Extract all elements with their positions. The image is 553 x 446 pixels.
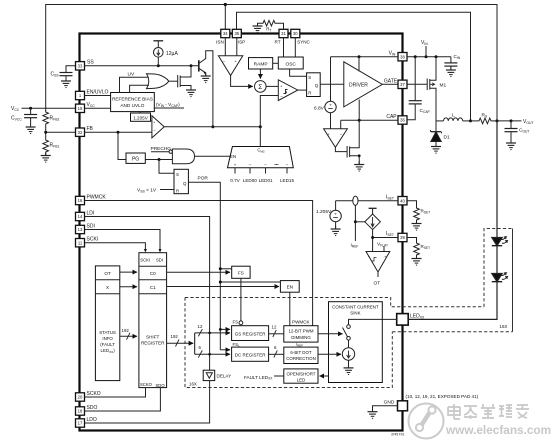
pin GND — [384, 400, 408, 411]
svg-text:VIN: VIN — [421, 40, 428, 46]
bus shift out 192 — [167, 342, 194, 344]
svg-text:EN: EN — [230, 154, 236, 159]
wire CAP rail — [341, 119, 398, 121]
amplifier DRIVER — [344, 62, 383, 107]
wire EN down to dimming — [289, 292, 291, 326]
svg-text:UV: UV — [128, 72, 135, 78]
wire driver output to GATE — [382, 83, 398, 85]
svg-text:SS: SS — [87, 60, 94, 66]
svg-text:PWMCK: PWMCK — [87, 195, 107, 201]
svg-text:VIN: VIN — [389, 51, 396, 57]
svg-text:35: 35 — [234, 31, 239, 36]
pin 31 RT — [274, 29, 288, 44]
svg-text:33: 33 — [78, 64, 83, 69]
svg-text:DELAY: DELAY — [217, 374, 232, 379]
svg-text:R: R — [308, 90, 311, 95]
node ISN junction — [224, 3, 227, 6]
svg-text:SCKO: SCKO — [140, 382, 153, 387]
svg-text:RT: RT — [274, 40, 280, 45]
svg-text:CSS: CSS — [51, 72, 60, 78]
svg-text:AND UVLO: AND UVLO — [120, 103, 144, 108]
svg-text:PWMCK: PWMCK — [292, 319, 311, 324]
reference bias and uvlo block — [111, 93, 155, 112]
wire POR to FS — [220, 268, 231, 270]
svg-text:LEDXX: LEDXX — [410, 313, 425, 319]
node current mirror oval — [353, 196, 358, 205]
svg-text:Σ: Σ — [258, 84, 262, 91]
wire VSS<1V to R — [160, 189, 174, 191]
block DC register — [232, 342, 269, 362]
watermark elecfans logo — [409, 404, 552, 439]
pin 36 CAP — [386, 114, 407, 124]
ground RFB1 — [45, 154, 47, 156]
wire RT pin to OSC — [283, 38, 285, 57]
svg-text:CVCC: CVCC — [11, 116, 22, 122]
svg-text:+: + — [153, 121, 156, 125]
wire FB to PG — [118, 132, 126, 159]
svg-text:DC REGISTER: DC REGISTER — [235, 353, 267, 358]
svg-text:LED: LED — [297, 377, 306, 382]
svg-text:37: 37 — [400, 82, 405, 87]
svg-text:16X: 16X — [189, 382, 197, 387]
or-gate UV — [147, 74, 169, 89]
svg-text:−: − — [223, 59, 226, 64]
svg-text:−: − — [249, 162, 252, 167]
svg-text:ISET: ISET — [386, 194, 394, 200]
source current sink — [342, 340, 354, 374]
source dependent current diamond — [355, 208, 380, 229]
svg-text:Q: Q — [315, 83, 319, 88]
svg-text:6: 6 — [274, 345, 277, 350]
wire switch to LED pin — [349, 319, 397, 324]
wire CCS to open/short — [320, 375, 329, 377]
svg-text:www.elecfans.com: www.elecfans.com — [445, 423, 551, 437]
wire ISP sense rail — [237, 12, 471, 121]
svg-text:RS: RS — [482, 113, 488, 119]
block OSC — [278, 57, 303, 69]
block PG power good — [126, 153, 145, 163]
note figure number — [391, 433, 405, 437]
node VCC input label — [11, 106, 20, 112]
block 12-bit PWM dimming — [284, 319, 318, 342]
svg-text:RSET: RSET — [421, 209, 431, 215]
wire fault LED label — [274, 375, 284, 377]
svg-text:SDO: SDO — [156, 383, 166, 388]
capacitor CCAP — [407, 57, 431, 120]
wire LDO pin link — [85, 381, 210, 423]
svg-text:+: + — [235, 58, 238, 63]
svg-text:CCAP: CCAP — [420, 108, 431, 114]
svg-text:6: 6 — [199, 345, 202, 350]
svg-text:X: X — [106, 285, 109, 290]
wire driver Vin rail — [331, 56, 399, 58]
svg-text:SINK: SINK — [350, 310, 360, 315]
wire Vc to PWM comp minus — [260, 96, 278, 127]
pin 1 EN/UVLO — [76, 90, 109, 100]
capacitor CVCC — [11, 108, 37, 133]
pin 39 ISET — [386, 231, 407, 242]
comparator CM2 multiplexed — [228, 147, 294, 168]
svg-text:14: 14 — [78, 214, 83, 219]
pin 40 ISET — [386, 194, 407, 205]
svg-text:S: S — [308, 75, 311, 80]
svg-text:16X: 16X — [500, 324, 508, 329]
wire OR out to mosfet gate — [169, 80, 178, 82]
svg-text:GATE: GATE — [384, 78, 398, 84]
svg-text:RAMP: RAMP — [254, 62, 268, 68]
node Vc junction — [211, 125, 214, 128]
wire VFLAT input — [383, 246, 385, 252]
svg-text:SHIFT: SHIFT — [146, 335, 159, 340]
svg-text:34: 34 — [223, 31, 228, 36]
block open/short LED — [284, 369, 318, 383]
svg-text:RFB2: RFB2 — [50, 116, 60, 122]
wire SDO pin link — [85, 388, 161, 411]
svg-text:DRIVER: DRIVER — [349, 82, 368, 88]
svg-text:LEDXX): LEDXX) — [101, 348, 116, 354]
wire OT to C0 — [120, 271, 137, 273]
capacitor COUT — [505, 121, 530, 150]
boundary 16X channel dashed box — [185, 298, 484, 307]
svg-text:DIMMING: DIMMING — [291, 335, 311, 340]
svg-text:INFO: INFO — [102, 336, 113, 341]
LED D-LED1 — [492, 237, 508, 246]
svg-text:(10, 12, 19, 21, EXPOSED PAD 4: (10, 12, 19, 21, EXPOSED PAD 41) — [406, 394, 479, 399]
svg-text:13: 13 — [78, 227, 83, 232]
svg-text:EN: EN — [287, 285, 293, 290]
op-amp CAMP error amp — [85, 116, 165, 138]
capacitor CIN — [444, 54, 460, 77]
svg-text:LED01: LED01 — [259, 178, 273, 183]
wire IREF branch — [354, 205, 356, 241]
svg-text:CIN: CIN — [454, 54, 461, 60]
svg-text:REFERENCE BIAS: REFERENCE BIAS — [112, 97, 153, 102]
svg-text:−: − — [153, 128, 156, 133]
wire VOUT to LED anode — [496, 121, 498, 238]
svg-text:+: + — [334, 212, 337, 217]
block RAMP — [249, 58, 273, 69]
wire C0 to FS — [167, 271, 230, 273]
wire GND pin — [373, 406, 398, 412]
node FB-PG junction — [117, 131, 120, 134]
pin LEDxx — [397, 313, 425, 325]
svg-text:ISN: ISN — [216, 40, 224, 45]
svg-text:−: − — [368, 254, 371, 259]
svg-text:R: R — [176, 188, 179, 193]
bus demux to GS 12 — [195, 332, 230, 334]
svg-text:40: 40 — [400, 198, 405, 203]
wire PG to S — [159, 160, 174, 174]
pin 17 LDO — [76, 417, 97, 427]
svg-text:OPEN/SHORT: OPEN/SHORT — [287, 371, 316, 376]
svg-text:VCC: VCC — [11, 106, 20, 112]
pin 38 VIN — [389, 51, 407, 61]
wire ISET39 — [373, 230, 398, 252]
svg-text:LED15: LED15 — [280, 178, 294, 183]
transistor M1 external — [407, 57, 446, 121]
wire PG out to AND — [145, 159, 172, 161]
bus status 192 — [120, 335, 137, 337]
wire PWMCK — [85, 201, 313, 326]
wire POR to EN — [220, 281, 280, 283]
svg-text:STATUS: STATUS — [99, 330, 116, 335]
svg-text:−: − — [280, 94, 283, 99]
resistor RSET top — [407, 201, 430, 230]
op-amp OT comparator — [366, 252, 390, 287]
wire sum to PWM comp — [266, 85, 278, 87]
boundary LED string dashed box — [484, 229, 513, 307]
svg-text:SDO: SDO — [87, 405, 98, 411]
wire X to C1 — [120, 286, 137, 288]
wire VCC to block — [85, 107, 111, 109]
block EN — [280, 281, 299, 293]
svg-text:−: − — [264, 162, 267, 167]
pin 11 SCKI — [76, 237, 99, 247]
svg-text:EN/UVLO: EN/UVLO — [87, 90, 109, 96]
svg-text:6-BIT DOT: 6-BIT DOT — [290, 350, 311, 355]
svg-text:192: 192 — [171, 334, 179, 339]
svg-text:COUT: COUT — [519, 128, 529, 134]
svg-text:3745 F01: 3745 F01 — [391, 433, 405, 437]
svg-text:VFLAT: VFLAT — [377, 241, 388, 247]
pin 13 SDI — [76, 224, 95, 234]
svg-text:REGISTER: REGISTER — [141, 341, 165, 346]
pin 33 SS — [76, 60, 95, 71]
svg-text:OT: OT — [374, 281, 381, 287]
svg-text:11: 11 — [78, 240, 83, 245]
svg-text:SCKI: SCKI — [140, 257, 150, 262]
svg-text:12µA: 12µA — [166, 51, 178, 57]
svg-text:15: 15 — [78, 106, 83, 111]
svg-text:SDI: SDI — [156, 257, 163, 262]
wire Q to driver — [320, 83, 344, 85]
comparator PWM with hysteresis — [278, 80, 298, 101]
svg-text:PG: PG — [132, 157, 139, 163]
svg-text:OT: OT — [104, 271, 111, 276]
svg-text:12: 12 — [198, 324, 203, 329]
watermark chinese glyph blocks — [448, 404, 529, 419]
svg-text:FB: FB — [87, 126, 94, 132]
op-amp cap buffer — [324, 120, 348, 147]
svg-text:GS REGISTER: GS REGISTER — [235, 332, 267, 337]
svg-text:RSET: RSET — [421, 244, 431, 250]
current source 12uA — [153, 41, 178, 66]
svg-text:S: S — [176, 172, 179, 177]
wire correction to sink — [318, 353, 341, 355]
resistor RFB1 — [43, 139, 60, 154]
wire FS down to GS register — [240, 278, 242, 321]
svg-text:C0: C0 — [150, 271, 156, 276]
wire Q POR — [188, 182, 220, 349]
svg-text:0.7V: 0.7V — [230, 178, 240, 183]
pin 35 ISP — [232, 29, 245, 44]
svg-text:LDI: LDI — [87, 211, 95, 217]
wire LDI — [85, 217, 210, 371]
node VIN supply stub — [425, 46, 427, 57]
wire SYNC pin to OSC — [294, 38, 296, 57]
svg-text:CAP: CAP — [386, 114, 397, 120]
wire LED1 to LED2 — [496, 245, 498, 274]
wire ISN pin riser — [224, 5, 226, 30]
svg-text:12-BIT PWM: 12-BIT PWM — [288, 329, 313, 334]
svg-text:FAULT LEDXX: FAULT LEDXX — [244, 375, 273, 381]
wire SCKO pin link — [85, 388, 146, 397]
junction demux bracket — [194, 333, 196, 354]
wire latch enable DC — [220, 349, 230, 351]
block DELAY — [203, 370, 231, 380]
svg-text:31: 31 — [281, 31, 286, 36]
svg-text:SYNC: SYNC — [297, 40, 310, 45]
svg-text:12: 12 — [272, 325, 277, 330]
svg-text:PRECHG: PRECHG — [151, 146, 172, 152]
pin 37 GATE — [384, 78, 407, 88]
wire VIN rail external — [407, 56, 451, 58]
wire CM2 output to Vc — [259, 127, 261, 147]
wire CM2 input stubs — [235, 168, 287, 174]
wire EN/UVLO to block — [85, 95, 111, 97]
block GS register — [232, 320, 269, 341]
and-gate precharge — [172, 149, 194, 164]
svg-text:Q: Q — [183, 181, 187, 186]
op-amp current sense amp — [218, 56, 242, 76]
svg-text:RFB1: RFB1 — [50, 143, 60, 149]
svg-text:+: + — [328, 131, 331, 136]
svg-text:FSL: FSL — [233, 342, 241, 348]
wire UV to OR gate — [120, 77, 149, 92]
svg-text:30: 30 — [293, 31, 298, 36]
svg-text:−: − — [286, 162, 289, 167]
wire VOUT — [497, 120, 522, 122]
resistor RT with ground — [253, 20, 284, 32]
svg-text:•••: ••• — [274, 162, 279, 167]
svg-text:D1: D1 — [444, 135, 450, 141]
resistor RFB2 — [43, 111, 60, 126]
svg-text:SDI: SDI — [87, 224, 95, 230]
wire ISN ISP pin risers — [225, 38, 237, 56]
transistor internal MOSFET — [178, 66, 196, 97]
block status info column — [95, 266, 119, 381]
svg-text:6.8V: 6.8V — [314, 105, 325, 111]
svg-text:ISP: ISP — [238, 40, 245, 45]
svg-text:ISET: ISET — [386, 231, 394, 237]
svg-text:L: L — [452, 113, 455, 119]
svg-text:SCKO: SCKO — [87, 391, 101, 397]
pin 14 LDI — [76, 211, 95, 221]
wire PWM comp to R — [298, 89, 307, 91]
transistor NPN Q — [199, 51, 213, 127]
pin 34 ISN — [216, 29, 230, 44]
wire SDI — [85, 230, 161, 252]
block 1.205V reference — [131, 112, 151, 122]
svg-text:−: − — [340, 132, 343, 137]
capacitor CSS — [51, 66, 76, 88]
pin 15 VCC — [76, 102, 96, 113]
wire ISET40 — [336, 200, 398, 202]
wire error amp output Vc — [164, 126, 260, 128]
bus DC to correction 6 — [269, 353, 284, 355]
svg-text:M1: M1 — [440, 82, 447, 88]
svg-text:1.205V: 1.205V — [316, 209, 332, 215]
pin 32 FB — [76, 126, 94, 136]
pin 16 PWMCK — [76, 195, 107, 205]
svg-text:38: 38 — [400, 54, 405, 59]
svg-text:IREF: IREF — [296, 342, 303, 348]
wire sense amp to sum — [231, 76, 253, 87]
wire AND out to CM2 EN — [195, 155, 231, 157]
svg-text:IREF: IREF — [351, 243, 359, 249]
svg-text:C1: C1 — [150, 285, 156, 290]
svg-text:GND: GND — [384, 400, 395, 406]
wire RAMP to sum — [259, 69, 261, 79]
svg-text:VOUT: VOUT — [523, 119, 534, 125]
LED D-LED2 — [492, 273, 508, 282]
note exposed pad — [406, 394, 479, 399]
resistor RSET bottom — [407, 238, 430, 266]
svg-text:SCKI: SCKI — [87, 237, 99, 243]
svg-text:20: 20 — [78, 395, 83, 400]
wire PRECHG input — [151, 151, 169, 153]
svg-text:32: 32 — [78, 130, 83, 135]
pin 20 SCKO — [76, 391, 101, 401]
wire OSC to RAMP — [273, 62, 279, 64]
wire (VIN-VCAP) output — [154, 107, 184, 109]
svg-text:(FAULT: (FAULT — [100, 342, 115, 347]
wire ISN sense top rail — [46, 5, 497, 122]
block constant current sink — [329, 302, 383, 383]
svg-text:CONSTANT CURRENT: CONSTANT CURRENT — [332, 304, 379, 309]
svg-text:POR: POR — [198, 176, 209, 182]
bus demux to DC 6 — [195, 353, 230, 355]
resistor RS — [471, 113, 498, 124]
svg-text:FS: FS — [238, 270, 244, 275]
latch SR PWM — [307, 73, 321, 97]
svg-text:RT: RT — [266, 27, 271, 33]
block FS — [232, 266, 250, 278]
block 6-bit dot correction — [284, 342, 318, 364]
wire OSC to S — [290, 69, 307, 76]
svg-text:39: 39 — [400, 235, 405, 240]
svg-text:OSC: OSC — [285, 61, 296, 67]
pin 18 SDO — [76, 405, 98, 415]
svg-text:+: + — [329, 103, 332, 108]
latch SR precharge — [174, 169, 188, 193]
switch PWM — [343, 325, 351, 340]
svg-text:FS: FS — [233, 320, 239, 325]
svg-text:(VIN - VCAP): (VIN - VCAP) — [156, 102, 180, 108]
svg-text:VSS < 1V: VSS < 1V — [137, 187, 157, 193]
transistor cap pass MOSFET — [335, 120, 364, 171]
wire SS rail — [85, 65, 199, 67]
wire FB node — [45, 126, 47, 139]
wire LED return to LEDxx pin — [408, 281, 497, 319]
node sum sigma — [254, 81, 266, 93]
bus GS to dimming 12 — [269, 333, 284, 335]
wire SCKI — [85, 243, 146, 251]
svg-text:1.205V: 1.205V — [133, 116, 148, 121]
svg-text:17: 17 — [78, 421, 83, 426]
svg-text:192: 192 — [122, 328, 130, 333]
svg-text:16: 16 — [78, 198, 83, 203]
svg-text:VCC: VCC — [87, 102, 96, 108]
wire VCC — [22, 107, 76, 109]
svg-text:+: + — [234, 162, 237, 167]
svg-text:CM2: CM2 — [257, 148, 265, 154]
chip body LT3745 — [80, 34, 403, 431]
svg-text:CORRECTION: CORRECTION — [286, 356, 316, 361]
pin 30 SYNC — [291, 29, 311, 44]
diode D1 schottky — [431, 121, 450, 153]
svg-text:36: 36 — [400, 118, 405, 123]
